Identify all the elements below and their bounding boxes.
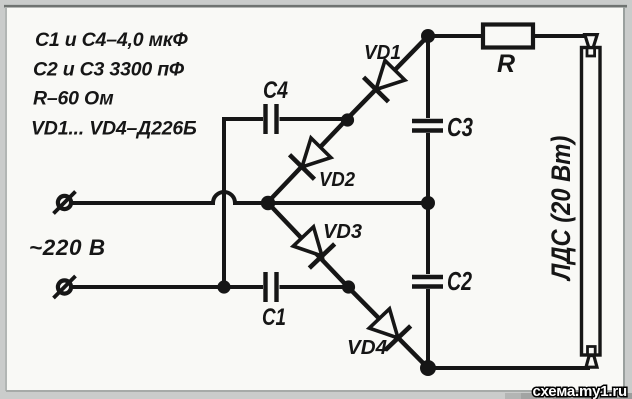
wire C4 left and vertical crossover (224, 119, 263, 287)
capacitor C2 (412, 277, 443, 287)
node dot central (261, 196, 275, 210)
border frame left (5, 7, 7, 391)
lamp top pin (585, 35, 597, 48)
svg-text:R: R (497, 50, 515, 78)
capacitor C3 (412, 121, 443, 131)
border frame top (4, 5, 627, 8)
diode VD2 (268, 119, 347, 202)
wire bottom input (72, 285, 264, 289)
lamp bottom electrode (588, 347, 596, 356)
lamp bottom pin (586, 356, 597, 368)
node dot bottom right (420, 360, 436, 376)
diode VD1 (347, 36, 428, 119)
node dot VD1-VD2 (341, 113, 354, 126)
diode VD3 (268, 203, 348, 287)
svg-text:C2 и C3 3300 пФ: C2 и C3 3300 пФ (33, 59, 185, 81)
svg-text:схема.my1.ru: схема.my1.ru (533, 383, 627, 399)
border frame right (623, 7, 625, 391)
capacitor C1 (266, 272, 277, 302)
wire top node to resistor (428, 34, 483, 38)
lamp EL1 tube (582, 48, 601, 356)
wire bottom node to lamp (428, 366, 590, 370)
wire C1 right to node (280, 285, 349, 289)
wire resistor to lamp (532, 34, 585, 38)
svg-text:VD2: VD2 (319, 169, 355, 191)
lamp top electrode (587, 48, 595, 57)
svg-text:VD3: VD3 (323, 221, 362, 243)
diode VD4 (348, 287, 428, 368)
svg-text:C4: C4 (263, 77, 288, 104)
svg-text:R–60 Ом: R–60 Ом (33, 88, 114, 110)
node dot bottom crossover (217, 280, 230, 293)
wire right vertical lower (426, 289, 430, 368)
wire top input with hop (72, 192, 267, 203)
wire C4 right to node (280, 117, 348, 121)
wire central horizontal (268, 201, 428, 205)
capacitor C4 (266, 104, 277, 134)
terminal X1 top (54, 192, 76, 214)
svg-text:VD4: VD4 (347, 337, 387, 359)
watermark bar blocks (505, 393, 632, 399)
resistor R (483, 25, 533, 48)
svg-text:C2: C2 (447, 268, 472, 296)
terminal X2 bottom (54, 276, 76, 298)
node dot top right (421, 29, 435, 43)
border frame bottom (6, 390, 624, 392)
svg-text:C3: C3 (447, 114, 473, 142)
svg-text:ЛДС (20 Вт): ЛДС (20 Вт) (547, 136, 577, 282)
wire right vertical middle (426, 133, 430, 274)
wire right vertical upper (426, 36, 430, 118)
node dot mid right (421, 196, 435, 210)
svg-text:VD1: VD1 (364, 42, 401, 64)
svg-text:VD1... VD4–Д226Б: VD1... VD4–Д226Б (31, 118, 197, 140)
svg-text:~220 В: ~220 В (29, 235, 106, 260)
node dot VD3-VD4 (342, 280, 355, 293)
svg-text:C1: C1 (262, 304, 286, 331)
svg-text:C1 и C4–4,0 мкФ: C1 и C4–4,0 мкФ (35, 29, 188, 51)
